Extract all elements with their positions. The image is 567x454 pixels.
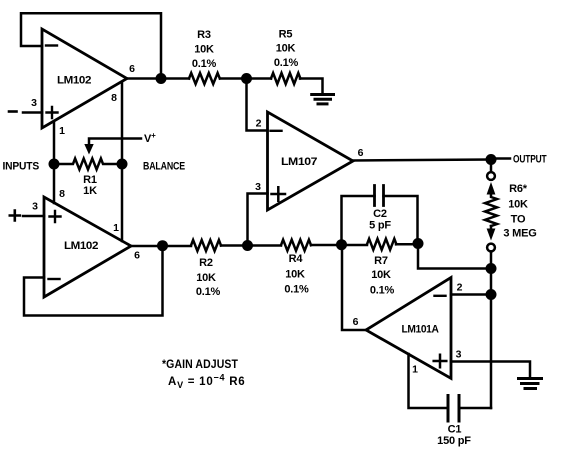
wire: R7 to right node <box>396 243 418 246</box>
wire: U1 pin 8 down to R1 right node <box>121 82 124 164</box>
svg-text:10K: 10K <box>285 269 305 281</box>
wire: U4 output to R4/R7 junction <box>342 245 366 330</box>
node: R2/R4 junction <box>242 240 253 251</box>
svg-text:C1: C1 <box>448 424 462 436</box>
wire: R5 to ground <box>300 79 323 94</box>
node: U4 pin 2 junction <box>486 289 497 300</box>
wire: R6 bottom terminal to junction <box>490 252 493 269</box>
op-amp U3 LM107 triangle <box>268 112 354 210</box>
wire: summing column (R6 bottom to C1) <box>490 269 493 409</box>
svg-text:LM102: LM102 <box>64 240 98 252</box>
svg-text:3: 3 <box>31 97 37 109</box>
svg-text:LM107: LM107 <box>281 156 317 168</box>
svg-text:6: 6 <box>129 63 135 75</box>
resistor R6 zigzag (vertical, variable) <box>485 193 497 226</box>
svg-text:150 pF: 150 pF <box>437 435 471 447</box>
svg-text:2: 2 <box>256 118 262 130</box>
svg-text:3 MEG: 3 MEG <box>503 228 536 240</box>
R6 up arrowhead <box>487 182 496 195</box>
svg-text:10K: 10K <box>371 269 391 281</box>
svg-text:TO: TO <box>511 214 526 226</box>
svg-text:1: 1 <box>412 364 418 376</box>
R6 bottom open terminal <box>487 244 495 252</box>
resistor R1 (balance pot) zigzag <box>54 159 122 170</box>
R6 down arrowhead <box>487 229 496 241</box>
svg-text:1: 1 <box>59 125 65 137</box>
svg-text:1: 1 <box>113 222 119 234</box>
R6 top open terminal <box>487 172 495 180</box>
wire: R3/R5 junction down to U3 pin 2 <box>247 79 268 131</box>
svg-text:5 pF: 5 pF <box>369 220 391 232</box>
svg-text:LM101A: LM101A <box>402 324 439 336</box>
U4 plus sign <box>434 355 447 368</box>
capacitor C1 plates <box>448 396 459 422</box>
svg-text:1K: 1K <box>83 185 97 197</box>
wire: R4 to R7 through junction <box>311 244 367 247</box>
node: R7/C2 right junction <box>413 238 424 249</box>
svg-text:*GAIN ADJUST: *GAIN ADJUST <box>162 359 238 371</box>
wire: U2 pin 8 up to R1 left node <box>53 164 56 203</box>
svg-text:6: 6 <box>353 316 359 328</box>
plus input terminal sign <box>10 211 20 221</box>
ground symbol (U4 pin 3) <box>519 377 542 380</box>
wire: U3 output to OUTPUT node <box>353 160 491 161</box>
svg-text:R4: R4 <box>289 253 304 265</box>
node: R1 right (balance) <box>117 159 128 170</box>
svg-text:BALANCE: BALANCE <box>143 161 185 173</box>
wire: plus input terminal to U2 pin 3 <box>23 215 44 218</box>
svg-text:R5: R5 <box>279 29 293 41</box>
svg-text:R2: R2 <box>199 257 213 269</box>
svg-text:C2: C2 <box>373 208 387 220</box>
ground symbol (R5) <box>312 93 334 96</box>
wire: U4 pin 2 to summing column <box>451 293 491 296</box>
svg-text:2: 2 <box>457 282 463 294</box>
svg-text:INPUTS: INPUTS <box>3 161 40 173</box>
U1 minus sign <box>46 44 57 46</box>
U1 plus sign <box>47 107 58 118</box>
svg-text:R3: R3 <box>197 29 211 41</box>
U2 minus sign <box>49 278 60 280</box>
svg-text:8: 8 <box>59 188 65 200</box>
svg-text:0.1%: 0.1% <box>274 57 299 69</box>
node: R3/R5 junction <box>241 73 252 84</box>
svg-text:0.1%: 0.1% <box>370 285 395 297</box>
node: R1 left (INPUTS top) <box>49 159 60 170</box>
svg-text:R6*: R6* <box>509 183 528 195</box>
wire: U4 pin 3 to ground <box>451 362 530 377</box>
wire: U4 pin 1 down to C1 <box>409 354 449 408</box>
wire: R2/R4 junction up to U3 pin 3 <box>248 194 268 246</box>
wire: C1 right to summing column <box>459 407 491 410</box>
svg-text:OUTPUT: OUTPUT <box>513 154 547 166</box>
svg-text:10K: 10K <box>194 44 214 56</box>
U3 minus sign <box>271 130 282 132</box>
capacitor C2 bridge left wire <box>342 196 375 245</box>
wire: U2 output to R2 <box>131 245 191 248</box>
OUTPUT label dash <box>497 157 511 160</box>
capacitor C2 plates <box>375 186 384 206</box>
svg-text:0.1%: 0.1% <box>196 286 221 298</box>
op-amp U4 LM101A triangle (points left) <box>366 278 451 379</box>
op-amp U1 LM102 (top buffer) triangle <box>42 29 127 128</box>
wire: U1 feedback loop (output to inverting input) <box>21 13 161 78</box>
wire: R3 to R5 through junction <box>220 77 271 80</box>
wire: U1 output to R3 <box>127 77 189 80</box>
resistor R4 zigzag <box>281 240 311 251</box>
wire: U2 feedback loop (output to inverting input) <box>24 246 163 316</box>
op-amp U2 LM102 (bottom buffer) triangle <box>44 197 131 297</box>
minus input terminal sign <box>9 110 17 113</box>
svg-text:10K: 10K <box>196 272 216 284</box>
wire: R7 right node down and to summing column <box>418 244 491 269</box>
resistor R5 zigzag <box>271 73 300 84</box>
svg-text:3: 3 <box>32 201 38 213</box>
wire: U1 pin 1 down to R1 left node <box>53 122 56 165</box>
node: R6 bottom junction <box>486 263 497 274</box>
svg-text:3: 3 <box>255 181 261 193</box>
svg-text:LM102: LM102 <box>57 75 91 87</box>
node: U1 output <box>156 73 167 84</box>
wire: U2 pin 1 up to R1 right node <box>121 164 124 241</box>
U3 plus sign <box>272 187 286 200</box>
svg-text:10K: 10K <box>508 199 528 211</box>
capacitor C2 bridge right wire <box>384 196 418 244</box>
resistor R2 zigzag <box>191 240 221 251</box>
node: U2 output <box>157 240 168 251</box>
resistor R3 zigzag <box>189 73 220 84</box>
U4 minus sign <box>435 295 446 297</box>
V+ arrow to R1 wiper <box>89 139 141 146</box>
svg-text:8: 8 <box>111 92 117 104</box>
svg-text:R7: R7 <box>374 255 388 267</box>
svg-text:6: 6 <box>134 250 140 262</box>
wire: R2 to R4 through junction <box>221 244 281 247</box>
wire: minus input terminal to U1 pin 3 <box>23 111 42 114</box>
resistor R7 zigzag <box>367 239 396 250</box>
svg-text:3: 3 <box>456 349 462 361</box>
svg-text:0.1%: 0.1% <box>284 284 309 296</box>
wire: OUTPUT node down to R6 top terminal <box>490 160 493 173</box>
U2 plus sign <box>50 211 61 222</box>
svg-text:0.1%: 0.1% <box>192 58 217 70</box>
svg-text:10K: 10K <box>276 43 296 55</box>
V+ arrowhead <box>84 144 93 155</box>
svg-text:6: 6 <box>358 147 364 159</box>
node: OUTPUT <box>486 154 497 165</box>
node: R4/R7/C2/U4-output junction <box>336 239 347 250</box>
